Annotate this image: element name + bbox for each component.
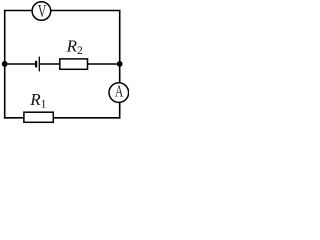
svg-text:V: V bbox=[38, 1, 47, 21]
svg-text:A: A bbox=[115, 81, 124, 100]
